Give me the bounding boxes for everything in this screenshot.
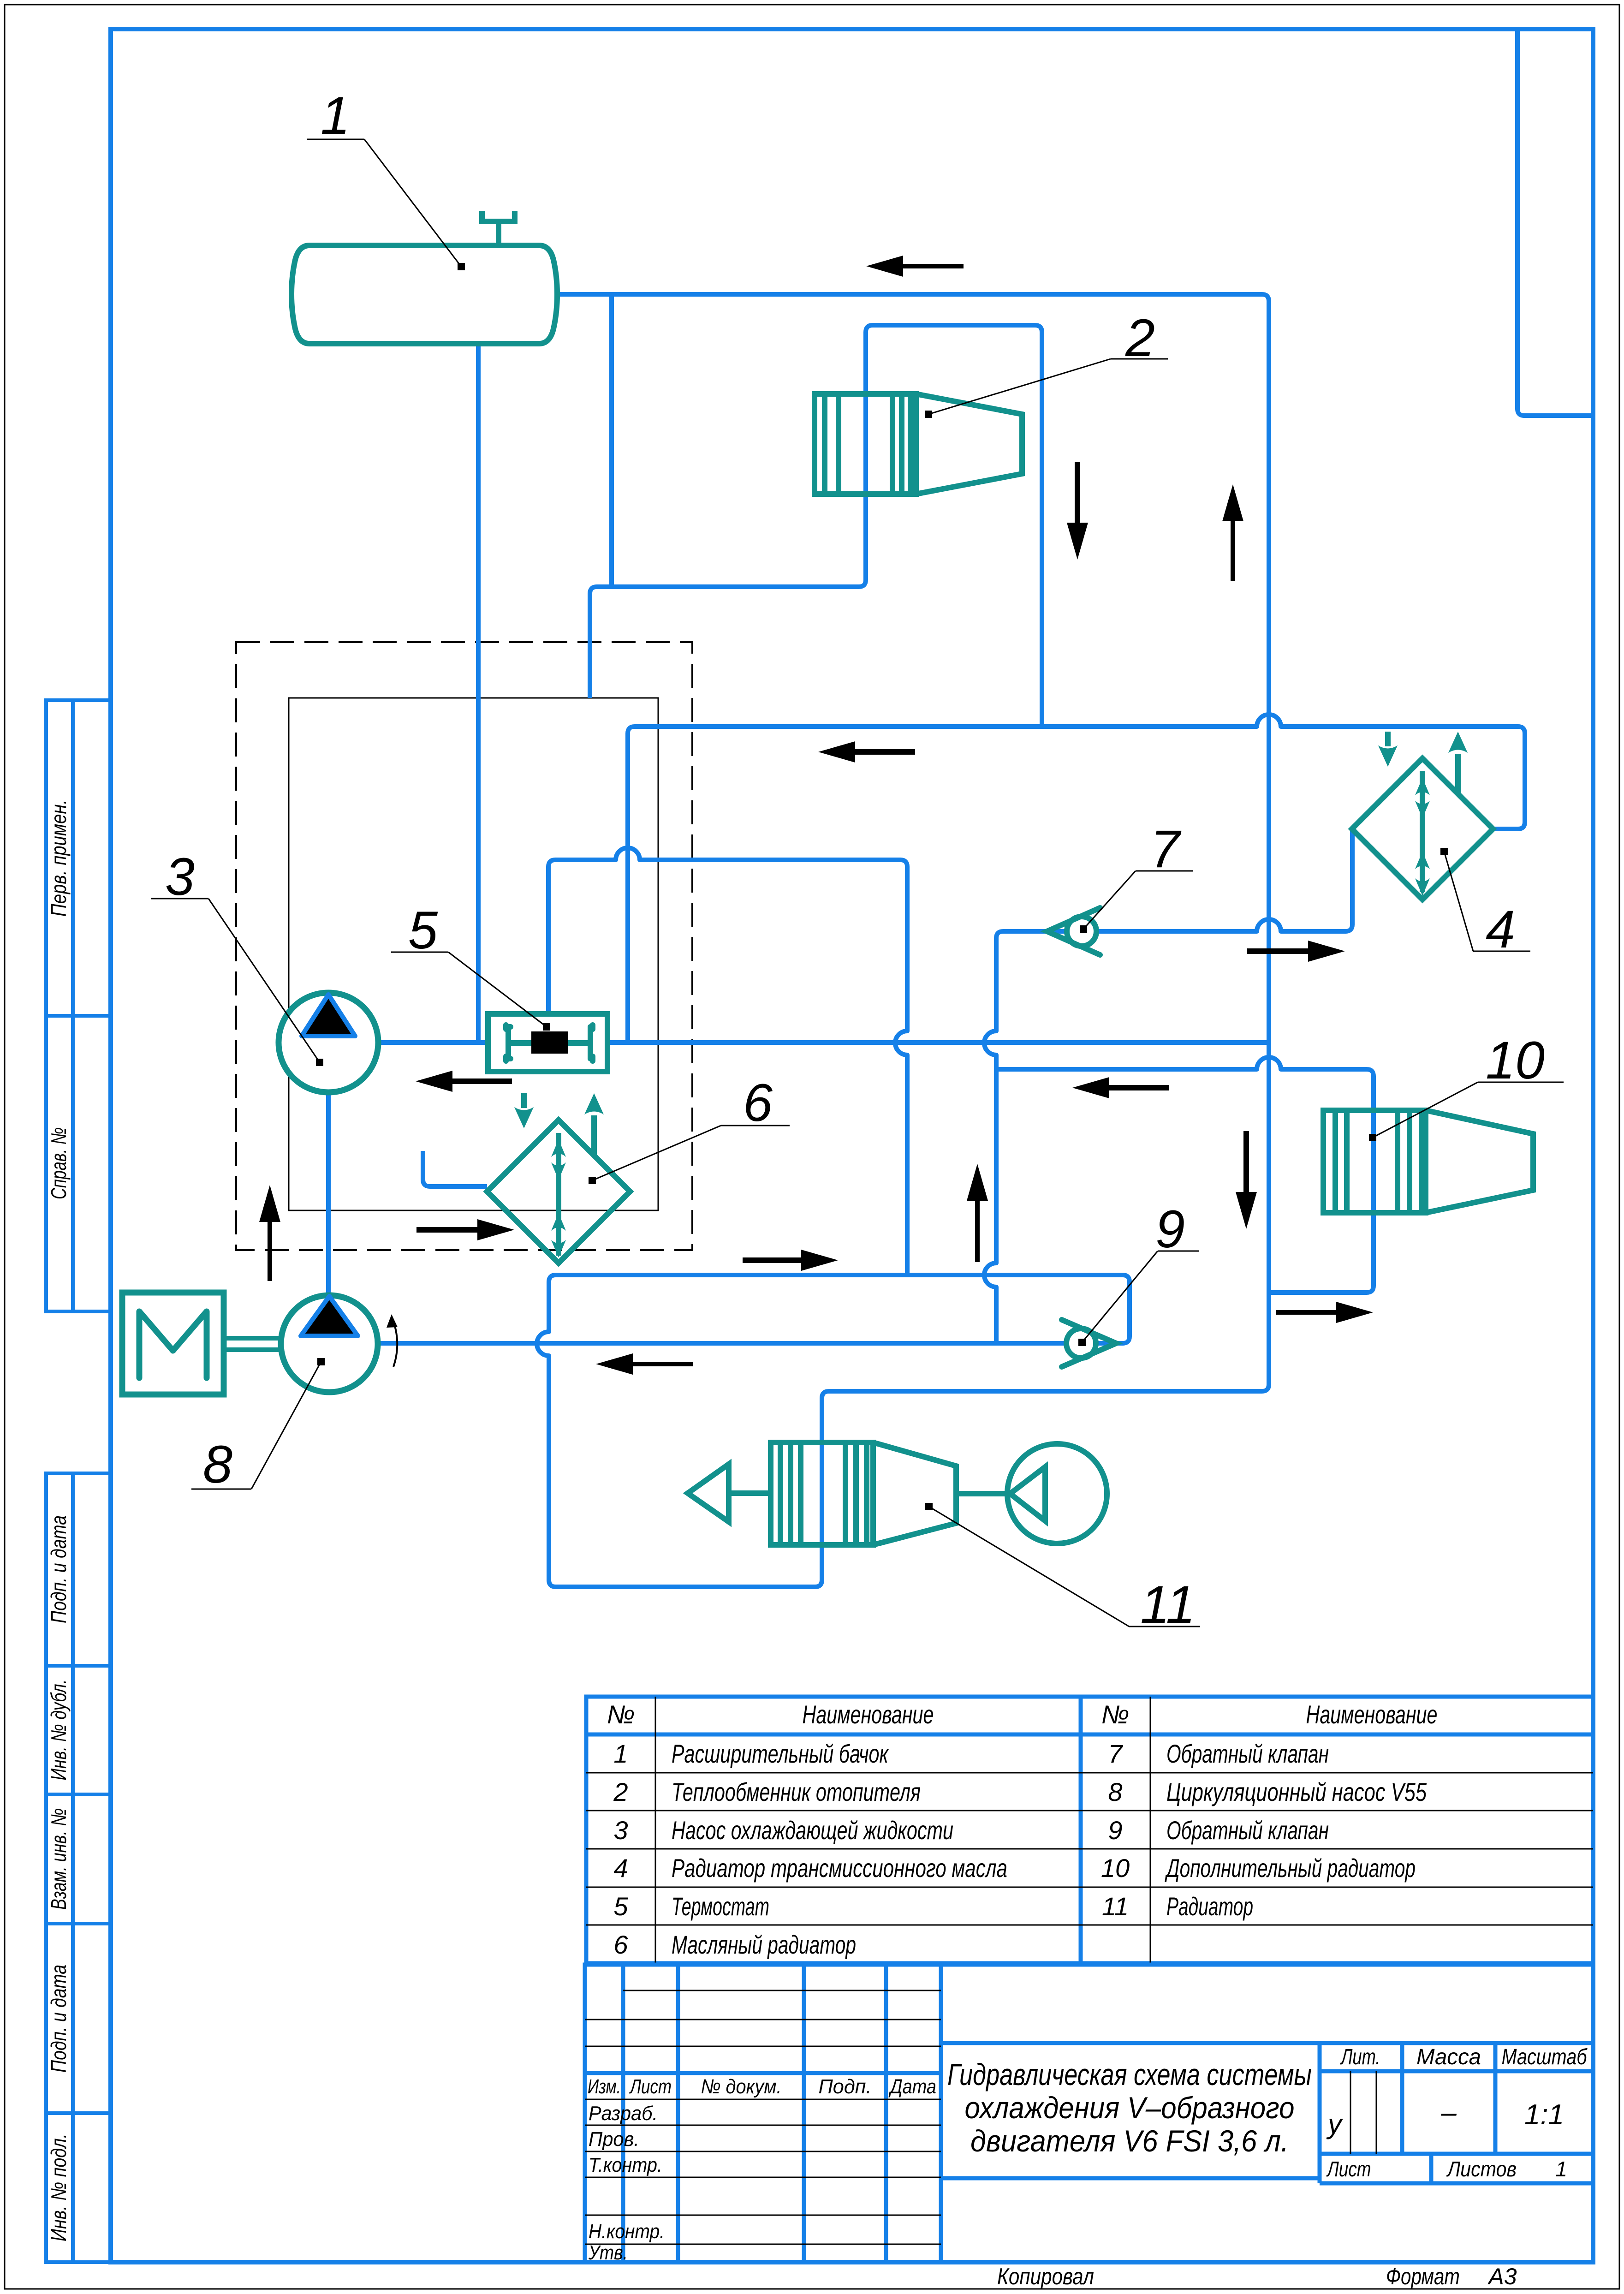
wire thermostat top loop xyxy=(548,848,907,1275)
svg-text:Лист: Лист xyxy=(1326,2157,1371,2181)
svg-text:Взам. инв. №: Взам. инв. № xyxy=(47,1808,71,1910)
flow arrow down (right of heater 2) xyxy=(1067,462,1088,560)
svg-text:№: № xyxy=(1101,1700,1130,1729)
svg-text:Обратный клапан: Обратный клапан xyxy=(1166,1816,1329,1845)
stamp box Подп. и дата xyxy=(46,1924,111,2113)
wire riser x=3290 to y=901 xyxy=(1517,29,1593,416)
svg-text:Копировал: Копировал xyxy=(997,2264,1094,2289)
svg-text:Формат: Формат xyxy=(1386,2264,1460,2289)
wire valve7 line xyxy=(984,829,1352,1343)
flow arrow up (left of check valve 9) xyxy=(967,1164,988,1262)
oil radiator 6 (diamond) xyxy=(487,1120,630,1263)
svg-text:8: 8 xyxy=(203,1435,232,1494)
thermostat 5 xyxy=(488,1014,607,1072)
flow arrow up (left of pump 3) xyxy=(259,1185,280,1281)
svg-text:Лит.: Лит. xyxy=(1340,2045,1380,2069)
svg-text:Радиатор трансмиссионного масл: Радиатор трансмиссионного масла xyxy=(672,1853,1007,1883)
wire radiator10 loop xyxy=(996,1057,1374,1293)
check valve 7 xyxy=(1047,908,1100,955)
svg-text:10: 10 xyxy=(1101,1853,1130,1883)
svg-text:Масса: Масса xyxy=(1416,2045,1481,2069)
wire line to radiator4 xyxy=(635,715,1525,829)
svg-text:Т.контр.: Т.контр. xyxy=(589,2154,662,2176)
transmission oil radiator 4 (diamond) xyxy=(1352,758,1493,900)
radiator 11 xyxy=(771,1442,956,1545)
flow arrow up (right riser) xyxy=(1222,484,1243,581)
svg-text:9: 9 xyxy=(1108,1816,1122,1845)
tank cap xyxy=(482,211,515,245)
stamp box Справ. № xyxy=(46,1016,111,1311)
svg-text:10: 10 xyxy=(1486,1031,1545,1090)
svg-text:11: 11 xyxy=(1140,1575,1195,1634)
wire comp2 internal xyxy=(863,394,868,494)
svg-text:6: 6 xyxy=(743,1073,773,1132)
flow arrow right (engine bottom) xyxy=(416,1219,514,1240)
svg-text:Изм.: Изм. xyxy=(588,2075,621,2098)
wire comp2 bottom loop xyxy=(590,494,866,698)
svg-text:Подп.: Подп. xyxy=(819,2075,872,2098)
svg-text:2: 2 xyxy=(613,1777,628,1806)
svg-text:3: 3 xyxy=(613,1816,628,1845)
svg-text:5: 5 xyxy=(613,1892,628,1921)
check valve 9 xyxy=(1062,1320,1116,1367)
svg-text:11: 11 xyxy=(1102,1892,1129,1921)
wire x1361 down xyxy=(628,727,635,1043)
engine block dashed boundary xyxy=(236,642,692,1250)
svg-text:Наименование: Наименование xyxy=(803,1700,934,1729)
stamp box Перв. примен. xyxy=(46,700,111,1016)
svg-text:Н.контр.: Н.контр. xyxy=(589,2220,665,2243)
stamp box Взам. инв. № xyxy=(46,1794,111,1924)
expansion tank 1 xyxy=(291,211,557,344)
radiator 11 fan xyxy=(956,1444,1107,1543)
stamp box Инв. № подл. xyxy=(46,2113,111,2262)
flow arrow left (under radiator10 supply) xyxy=(1072,1077,1169,1098)
wire comp2 top loop xyxy=(866,325,1042,727)
svg-text:3: 3 xyxy=(165,847,195,906)
flow arrow right (radiator10 outlet) xyxy=(1276,1302,1373,1323)
svg-text:Циркуляционный насос V55: Циркуляционный насос V55 xyxy=(1166,1777,1427,1806)
component list table xyxy=(586,1697,1593,1963)
heat exchanger 2 (heater core) xyxy=(815,394,1022,494)
svg-text:Теплообменник отопителя: Теплообменник отопителя xyxy=(672,1777,921,1806)
svg-text:Подп. и дата: Подп. и дата xyxy=(47,1965,71,2073)
svg-text:Перв. примен.: Перв. примен. xyxy=(47,799,71,917)
svg-text:4: 4 xyxy=(613,1853,628,1883)
svg-text:1: 1 xyxy=(1555,2157,1567,2181)
svg-text:Масляный радиатор: Масляный радиатор xyxy=(672,1930,856,1959)
stamp box Подп. и дата xyxy=(46,1473,111,1666)
svg-text:1: 1 xyxy=(613,1739,628,1768)
wire pump3 outlet xyxy=(364,1040,1269,1045)
coolant pump 3 xyxy=(279,993,378,1092)
svg-text:А3: А3 xyxy=(1487,2264,1517,2289)
stamp box Инв. № дубл. xyxy=(46,1666,111,1794)
svg-text:охлаждения V–образного: охлаждения V–образного xyxy=(965,2091,1295,2125)
svg-text:Справ. №: Справ. № xyxy=(47,1127,71,1199)
svg-text:Обратный клапан: Обратный клапан xyxy=(1166,1739,1329,1768)
svg-text:№: № xyxy=(607,1700,635,1729)
svg-text:двигателя V6 FSI 3,6 л.: двигателя V6 FSI 3,6 л. xyxy=(970,2124,1289,2158)
svg-text:Инв. № подл.: Инв. № подл. xyxy=(47,2133,71,2241)
circulation pump 8 xyxy=(281,1295,378,1392)
air flow arrow at radiator 11 xyxy=(688,1464,771,1522)
flow arrow left (top, to tank) xyxy=(866,256,964,277)
engine block solid outline xyxy=(289,698,658,1210)
svg-text:№ докум.: № докум. xyxy=(701,2075,782,2098)
flow arrow left (under line to radiator4) xyxy=(818,741,915,763)
flow arrow left (thermostat bypass) xyxy=(416,1071,512,1092)
svg-text:Дата: Дата xyxy=(888,2075,936,2098)
svg-text:Насос охлаждающей жидкости: Насос охлаждающей жидкости xyxy=(672,1816,953,1845)
svg-text:5: 5 xyxy=(408,901,438,960)
svg-text:Пров.: Пров. xyxy=(589,2128,639,2151)
svg-text:Термостат: Термостат xyxy=(672,1892,769,1921)
wire main loop xyxy=(537,294,1269,1587)
svg-text:Лист: Лист xyxy=(629,2075,672,2098)
svg-text:Дополнительный радиатор: Дополнительный радиатор xyxy=(1165,1853,1416,1883)
wire pump8 outlet xyxy=(378,1341,1124,1346)
svg-text:1: 1 xyxy=(321,86,350,145)
svg-text:Масштаб: Масштаб xyxy=(1502,2045,1588,2069)
wire heater branch xyxy=(609,297,614,587)
svg-text:у: у xyxy=(1326,2109,1344,2139)
wire bypass to radiator6 xyxy=(423,1151,487,1186)
svg-text:Подп. и дата: Подп. и дата xyxy=(47,1515,71,1623)
svg-text:Наименование: Наименование xyxy=(1306,1700,1438,1729)
flow arrow right (above radiator11 return) xyxy=(743,1250,838,1271)
flow arrow left (under pump8 line) xyxy=(596,1353,693,1375)
svg-text:Утв.: Утв. xyxy=(588,2241,628,2264)
svg-text:7: 7 xyxy=(1108,1739,1123,1768)
electric motor M xyxy=(122,1293,281,1394)
svg-text:–: – xyxy=(1440,2097,1457,2128)
svg-text:6: 6 xyxy=(613,1930,628,1959)
svg-text:Радиатор: Радиатор xyxy=(1166,1892,1253,1921)
svg-text:8: 8 xyxy=(1108,1777,1122,1806)
title block xyxy=(585,1965,1593,2262)
pump 8 rotation arrow xyxy=(392,1318,397,1367)
svg-text:4: 4 xyxy=(1486,900,1515,959)
svg-text:Инв. № дубл.: Инв. № дубл. xyxy=(47,1680,71,1781)
wire pump3-pump8 xyxy=(326,1092,331,1295)
additional radiator 10 xyxy=(1323,1110,1533,1213)
svg-text:Разраб.: Разраб. xyxy=(589,2102,658,2125)
svg-text:1:1: 1:1 xyxy=(1524,2099,1564,2131)
svg-text:Расширительный бачок: Расширительный бачок xyxy=(672,1739,889,1768)
svg-text:7: 7 xyxy=(1150,820,1182,879)
flow arrow right (to radiator 4) xyxy=(1247,941,1345,962)
svg-text:9: 9 xyxy=(1155,1200,1185,1259)
svg-text:Листов: Листов xyxy=(1446,2157,1517,2181)
flow arrow down (above radiator 10) xyxy=(1236,1131,1257,1229)
wire tank drop xyxy=(476,346,481,1043)
svg-text:Гидравлическая схема системы: Гидравлическая схема системы xyxy=(947,2057,1312,2091)
